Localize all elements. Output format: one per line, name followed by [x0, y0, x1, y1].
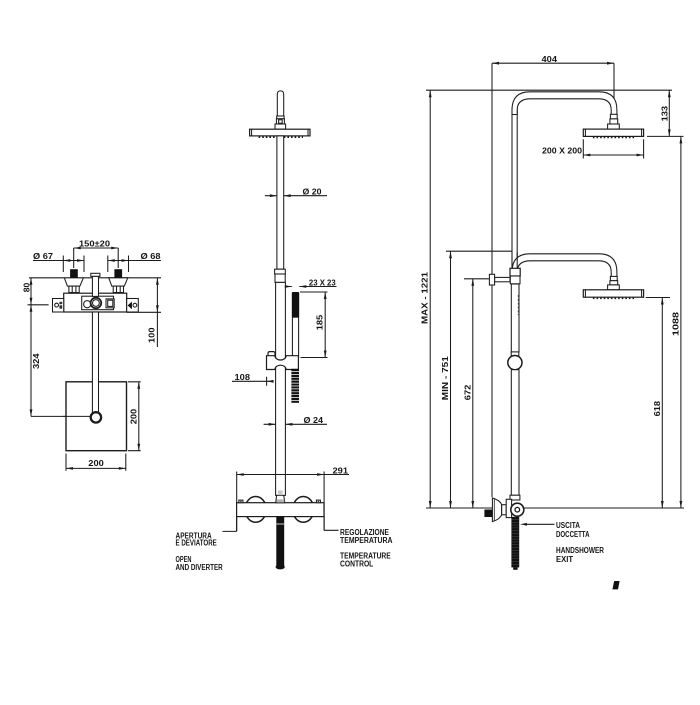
- handshower holder bracket: [267, 356, 299, 370]
- lower pipe Ø24 lower segment: [511, 370, 519, 496]
- page artifact mark: [612, 581, 619, 589]
- svg-text:23 X 23: 23 X 23: [309, 278, 336, 287]
- svg-text:133: 133: [660, 105, 669, 121]
- dim MAX-1221: [429, 90, 431, 508]
- dim 200 bottom line: [66, 454, 126, 471]
- dim Ø68 line: [108, 256, 161, 273]
- dim 672: [472, 279, 474, 508]
- MIN level extension: [446, 250, 513, 252]
- dim 100 line: [127, 278, 161, 347]
- head flange: [275, 124, 286, 129]
- inner cartridge rect: [82, 296, 114, 310]
- handshower outlet handle (black threaded): [511, 517, 519, 568]
- MAX shower arm: [512, 92, 617, 115]
- svg-text:1088: 1088: [672, 311, 681, 336]
- left inlet union trapezoid: [64, 278, 83, 286]
- left plate screw: [55, 303, 59, 307]
- MAX shower head (side): [583, 129, 643, 136]
- svg-text:CONTROL: CONTROL: [340, 559, 373, 569]
- svg-text:200 X 200: 200 X 200: [542, 146, 583, 155]
- slider ball collar: [511, 352, 519, 356]
- svg-text:100: 100: [148, 327, 157, 343]
- svg-text:672: 672: [463, 384, 472, 400]
- temperature handle (black): [276, 517, 284, 567]
- reference line at union tops: [29, 277, 161, 279]
- dim 133: [668, 90, 670, 136]
- MIN head connector rings: [610, 276, 617, 280]
- bottom reference line: [426, 507, 684, 509]
- hose detail dashes on pipe: [517, 295, 519, 315]
- lower pipe Ø24 upper segment: [511, 284, 519, 352]
- dim 185: [300, 292, 328, 358]
- svg-text:291: 291: [333, 466, 349, 475]
- wall supply bar: [495, 277, 510, 281]
- leader USCITA: [525, 523, 555, 525]
- valve neck: [502, 505, 507, 515]
- outlet tube: [92, 276, 98, 296]
- valve knob left (front): [245, 497, 266, 523]
- right knob (black): [114, 269, 122, 278]
- valve body (plan): [64, 293, 127, 312]
- riser pipe upper Ø20: [277, 136, 284, 269]
- left wall plate: [53, 299, 64, 313]
- black wall stub: [484, 510, 492, 518]
- left knob (black): [70, 269, 78, 278]
- dim 1088: [680, 136, 682, 508]
- wall bell escutcheon: [492, 498, 501, 522]
- arm connector: [276, 119, 284, 124]
- svg-text:324: 324: [32, 353, 41, 369]
- wall supply flange: [489, 274, 494, 285]
- leader right: [324, 517, 338, 531]
- svg-text:AND DIVERTER: AND DIVERTER: [176, 562, 224, 572]
- svg-text:E DEVIATORE: E DEVIATORE: [176, 538, 217, 548]
- hose (ribbed black): [291, 369, 299, 403]
- MIN shower arm: [512, 254, 617, 277]
- dim 150±20 line: [74, 248, 119, 268]
- svg-text:404: 404: [542, 55, 558, 64]
- dim 324 line: [31, 305, 91, 417]
- shower head bar (front): [250, 129, 310, 136]
- right inlet nut: [113, 286, 123, 292]
- bracket knob: [268, 352, 275, 357]
- svg-text:108: 108: [235, 373, 251, 382]
- arm stub band: [277, 116, 284, 119]
- svg-text:MAX - 1221: MAX - 1221: [421, 271, 430, 324]
- MIN head bottom extension: [646, 297, 670, 299]
- MAX head flange: [608, 124, 620, 129]
- outlet tube cap: [91, 273, 100, 276]
- svg-text:618: 618: [653, 400, 662, 416]
- dim MIN-751: [450, 251, 452, 508]
- handshower head (black): [292, 292, 299, 317]
- shower head square: [66, 382, 127, 451]
- leader to head centre: [63, 415, 92, 417]
- body screw tabs: [239, 500, 243, 503]
- outlet circle: [511, 503, 524, 516]
- svg-text:DOCCETTA: DOCCETTA: [556, 529, 590, 539]
- upper pipe Ø20: [512, 108, 517, 268]
- svg-text:80: 80: [23, 282, 32, 292]
- left inlet nut: [69, 286, 79, 292]
- valve block: [506, 499, 511, 517]
- MIN shower head (side): [583, 290, 643, 297]
- slider ball knob: [508, 356, 522, 370]
- riser pipe lower Ø24: [276, 282, 286, 495]
- head inlet circle (bold): [91, 412, 101, 422]
- pipe lines through MIN arm: [512, 253, 517, 269]
- svg-text:185: 185: [316, 314, 325, 330]
- 672 extension: [464, 278, 490, 280]
- svg-text:Ø 68: Ø 68: [141, 252, 162, 261]
- svg-text:Ø 67: Ø 67: [33, 252, 54, 261]
- down pipe to head: [92, 312, 98, 412]
- handshower handle: [292, 317, 298, 357]
- svg-text:EXIT: EXIT: [556, 554, 574, 564]
- svg-text:200: 200: [88, 459, 104, 468]
- right plate clip (black): [128, 302, 132, 310]
- valve knob right (front): [293, 497, 314, 523]
- bottom valve nut: [510, 495, 520, 500]
- MIN head flange: [608, 285, 620, 290]
- svg-text:MIN - 751: MIN - 751: [441, 356, 450, 401]
- right inlet union trapezoid: [109, 278, 128, 286]
- outlet boss double circle: [91, 298, 102, 309]
- svg-text:200: 200: [129, 408, 138, 424]
- right wall plate: [127, 299, 139, 313]
- dim 80 line: [28, 278, 49, 305]
- MAX head connector rings: [610, 114, 617, 119]
- right plate screw: [133, 303, 137, 307]
- cartridge under pipe: [276, 495, 285, 502]
- nozzle dots: [259, 136, 303, 138]
- dim Ø67 line: [33, 256, 84, 273]
- MIN nozzle dots: [593, 297, 636, 299]
- svg-text:150±20: 150±20: [79, 240, 111, 249]
- top arm stub rounded tube: [277, 91, 283, 118]
- valve body (front): [237, 503, 324, 517]
- inner screw circle: [84, 301, 91, 308]
- slider fitting on pipe: [510, 268, 520, 276]
- dim 200 right line: [128, 382, 141, 451]
- leader left: [223, 517, 237, 532]
- dim 618: [661, 298, 663, 509]
- svg-text:TEMPERATURA: TEMPERATURA: [340, 535, 393, 545]
- MAX nozzle dots: [593, 137, 636, 139]
- MAX head bottom extension: [647, 135, 684, 137]
- diverter square: [106, 299, 114, 308]
- junction fitting: [275, 269, 286, 274]
- top reference line (MAX level): [426, 89, 672, 91]
